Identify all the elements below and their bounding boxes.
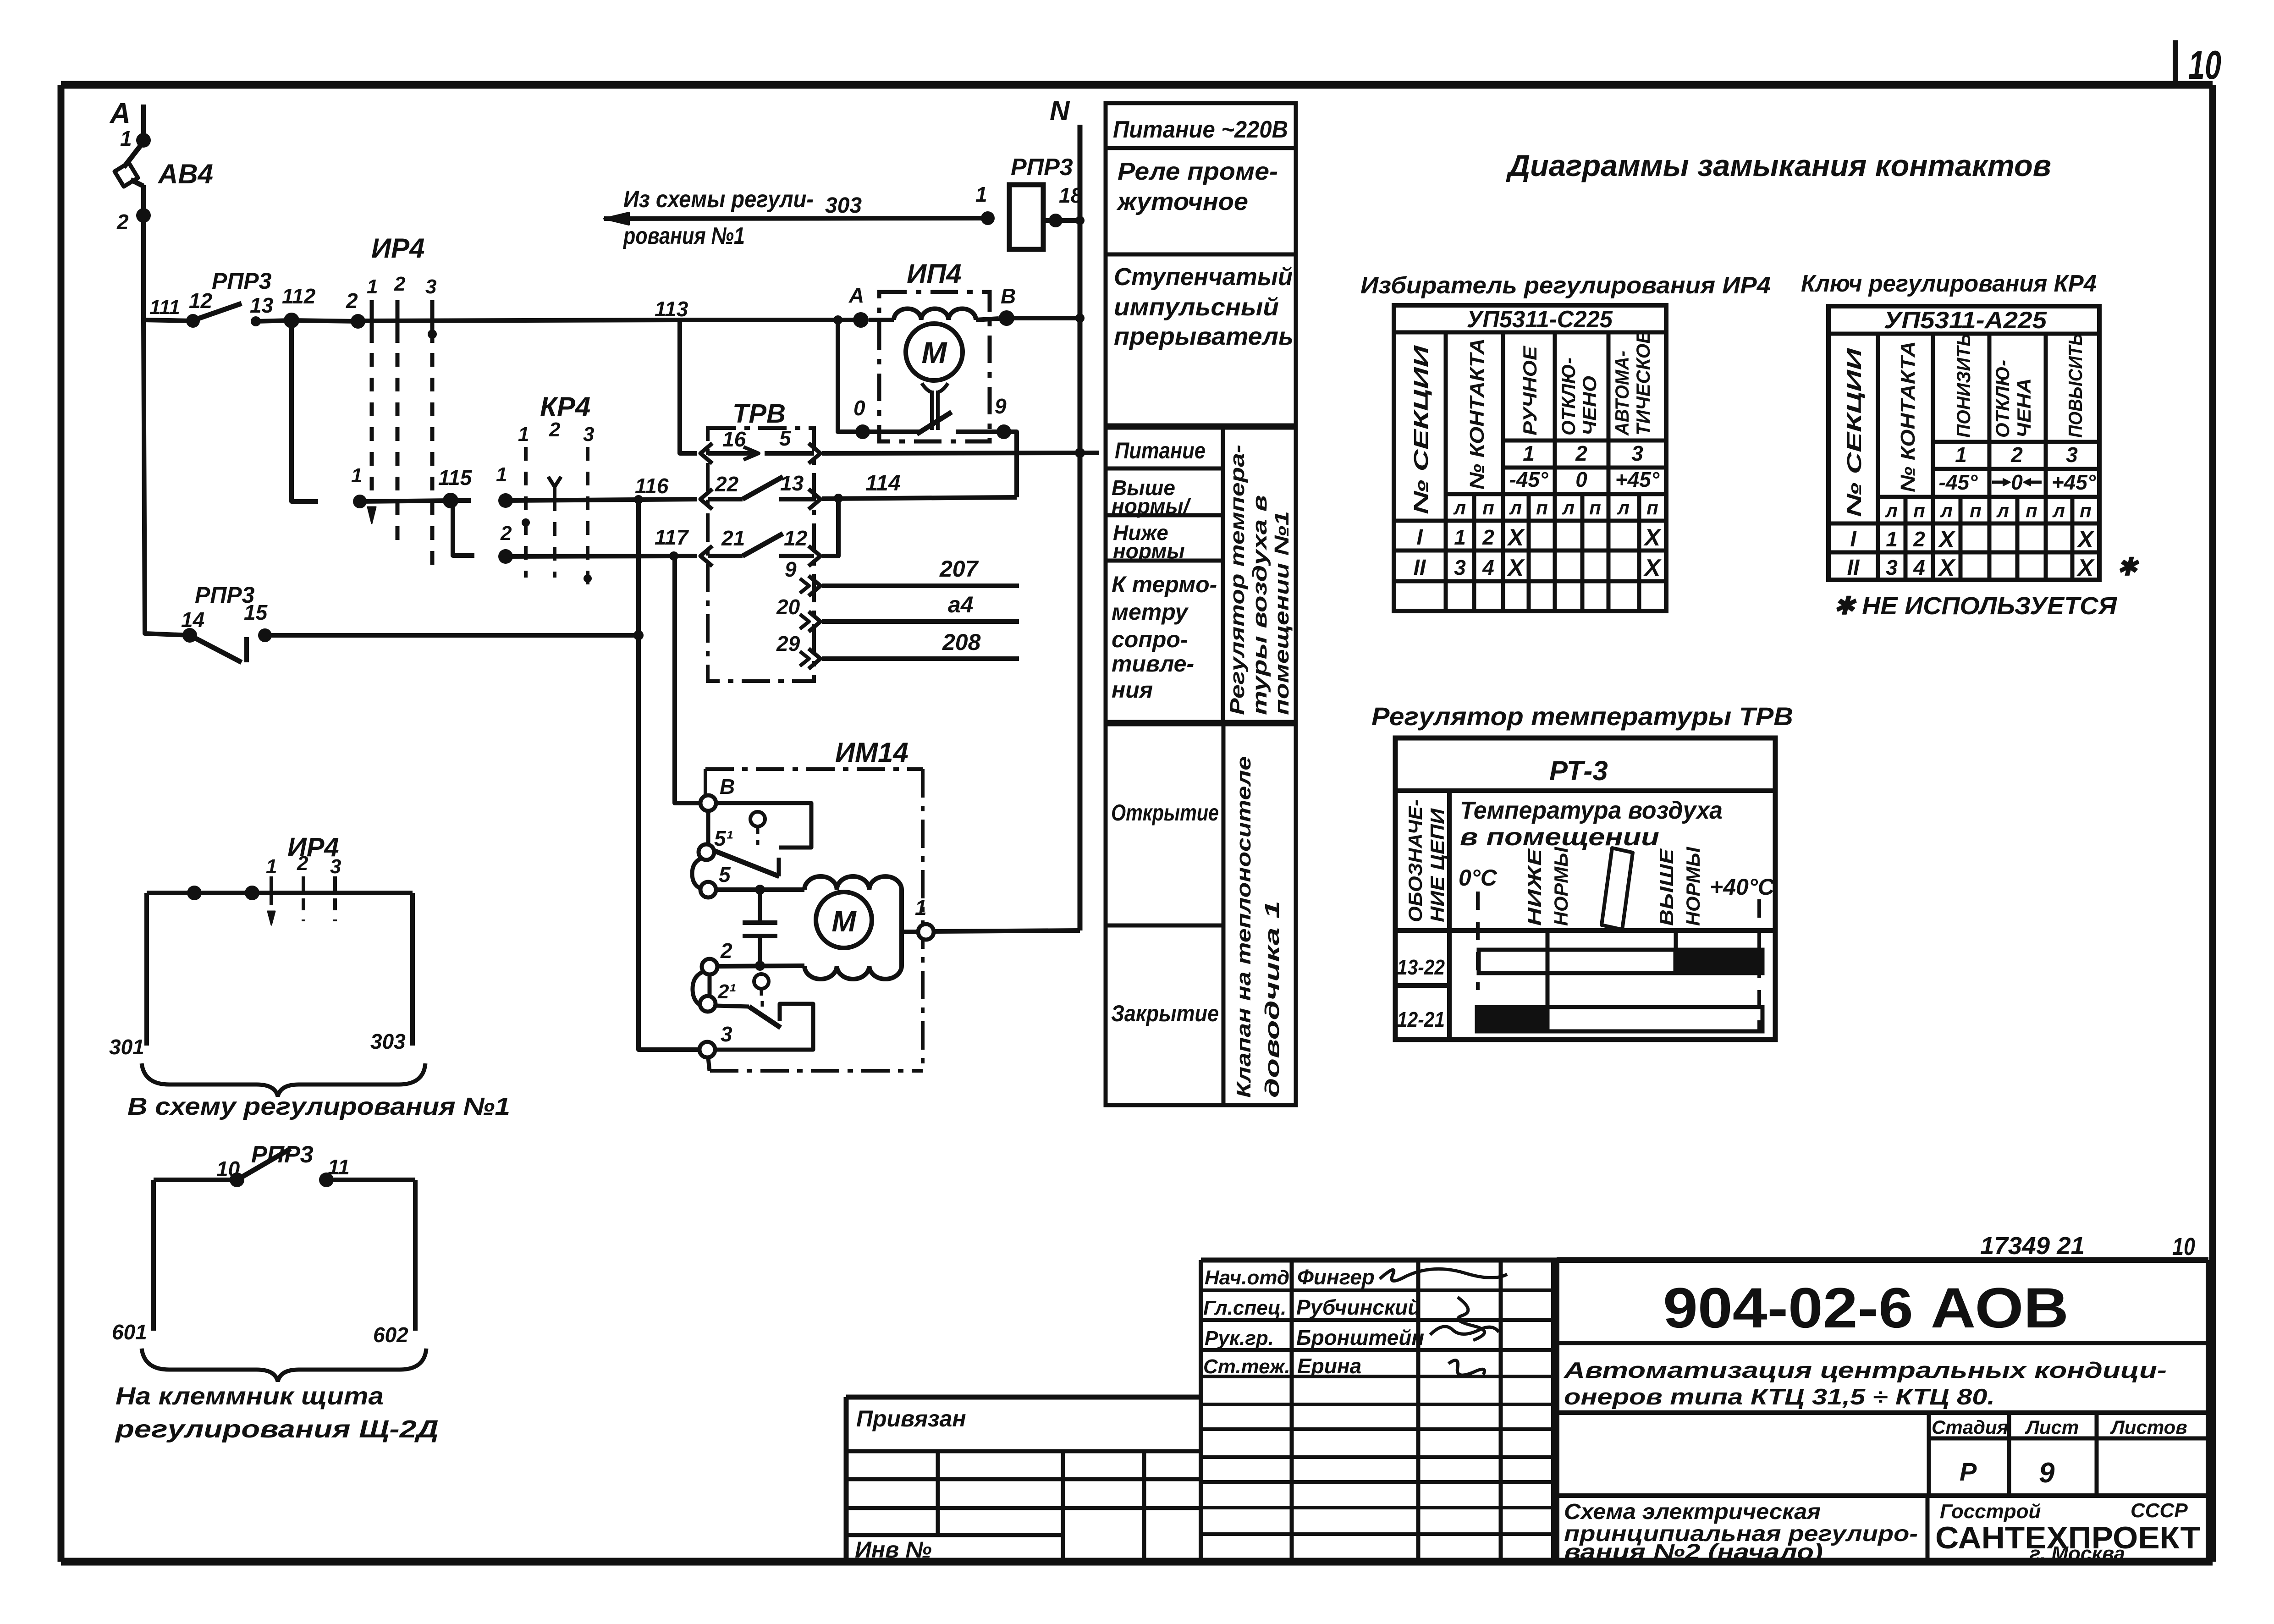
sub-circuit RPR3 10-11 (251, 1141, 314, 1168)
IM14 node 1 (915, 896, 934, 940)
subtitle Klyuch KR4 (1801, 270, 2097, 297)
actuator IM14 label (835, 737, 908, 768)
svg-text:НОРМЫ: НОРМЫ (1550, 847, 1572, 926)
wire 301 drop (109, 893, 147, 1059)
svg-text:12-21: 12-21 (1397, 1007, 1445, 1031)
svg-text:9: 9 (995, 394, 1007, 418)
RPR3 10-11 contact (154, 1149, 415, 1187)
svg-text:нормы: нормы (1113, 539, 1185, 563)
scale line nizhe (1546, 929, 1550, 1031)
svg-text:Х: Х (1507, 555, 1525, 581)
IM14 node B (700, 775, 735, 811)
wire 2 to motor (718, 961, 804, 971)
node B of IP4 (999, 284, 1016, 326)
svg-text:5: 5 (719, 863, 731, 886)
svg-text:303: 303 (370, 1029, 406, 1053)
title Regulyator temperatury TRV (1371, 702, 1793, 731)
svg-text:113: 113 (655, 297, 688, 321)
KR4 rotated header Ponizit (1953, 333, 1974, 438)
KR4 column labels (518, 418, 594, 446)
svg-text:10: 10 (2188, 42, 2221, 88)
svg-text:904-02-6 АОВ: 904-02-6 АОВ (1663, 1277, 2069, 1340)
wire 303 drop (370, 893, 413, 1053)
svg-text:сопро-: сопро- (1112, 627, 1188, 652)
actuator IM14 box (705, 769, 923, 1071)
label Privyazan (856, 1406, 966, 1431)
label Nizhe normy (1113, 521, 1185, 563)
svg-text:Ключ регулирования КР4: Ключ регулирования КР4 (1801, 270, 2097, 297)
setpoint parallelogram (1602, 848, 1633, 930)
node 18 of RPR3 coil (1049, 183, 1083, 227)
svg-text:18: 18 (1059, 183, 1083, 207)
svg-text:рования №1: рования №1 (622, 223, 745, 249)
svg-text:Питание: Питание (1115, 438, 1206, 463)
motor M of IP4 (906, 324, 963, 380)
svg-text:Фингер: Фингер (1297, 1265, 1375, 1289)
svg-text:п: п (1913, 500, 1925, 521)
KR4 positions row (1955, 443, 2078, 467)
rotated Nizhe normy (1524, 847, 1572, 926)
wire 5 to N line (822, 448, 1099, 458)
svg-text:1: 1 (120, 127, 132, 150)
svg-text:НИЕ ЦЕПИ: НИЕ ЦЕПИ (1426, 808, 1448, 922)
wire 5 to motor (716, 885, 804, 895)
svg-text:Схема электрическая: Схема электрическая (1564, 1500, 1821, 1524)
svg-text:РПР3: РПР3 (212, 268, 272, 294)
title block privyazan box (846, 1397, 1201, 1562)
KR4 row I (1850, 526, 2095, 553)
node A of IP4 (848, 283, 869, 328)
svg-text:ИМ14: ИМ14 (835, 737, 908, 768)
svg-text:Температура воздуха: Температура воздуха (1460, 797, 1723, 824)
title block main box (1557, 1260, 2208, 1562)
svg-text:СССР: СССР (2131, 1499, 2188, 1522)
svg-text:+45°: +45° (2052, 470, 2096, 494)
svg-text:1: 1 (1454, 525, 1466, 549)
KR4 rotated header N kontakta (1897, 341, 1919, 492)
rotated label Oboznachenie tsepi (1404, 799, 1448, 922)
KR4 angles row (1939, 470, 2096, 494)
svg-text:М: М (831, 905, 857, 938)
svg-text:№ КОНТАКТА: № КОНТАКТА (1897, 341, 1919, 492)
interrupter IP4 label (907, 259, 962, 289)
svg-text:РПР3: РПР3 (1011, 154, 1073, 181)
RT-3 table grid (1395, 738, 1775, 1040)
KR4 l/p row (1885, 500, 2092, 521)
svg-text:1: 1 (367, 275, 378, 298)
label Vyshe normy (1112, 476, 1191, 518)
junction 0-loop on bus (833, 315, 842, 325)
svg-text:М: М (922, 336, 948, 369)
svg-text:Ст.теж.: Ст.теж. (1203, 1355, 1290, 1378)
svg-text:5: 5 (779, 426, 792, 450)
node 113 junction (655, 297, 688, 321)
svg-text:16: 16 (722, 427, 746, 451)
svg-text:Автоматизация центральных ко: Автоматизация центральных кондици- (1564, 1358, 2167, 1383)
TRV contact 21-12 (700, 526, 820, 566)
TRV contact 16-5 (700, 426, 820, 463)
wire 2 to 2-1 (708, 975, 712, 996)
svg-text:Лист: Лист (2025, 1416, 2079, 1438)
svg-text:1: 1 (1886, 527, 1898, 551)
svg-text:УП5311-А225: УП5311-А225 (1884, 307, 2047, 334)
svg-text:импульсный: импульсный (1114, 293, 1279, 321)
svg-text:4: 4 (1482, 556, 1494, 579)
N line (1078, 125, 1083, 930)
svg-text:п: п (1482, 497, 1494, 518)
wire AB4 to node 2 (141, 185, 146, 215)
IM14 upper limit switch (714, 803, 811, 876)
riser 116 down (636, 500, 641, 635)
selector IR4 contact node 2 (346, 289, 365, 329)
scale +40 C (1710, 874, 1775, 900)
svg-text:п: п (2080, 500, 2092, 521)
svg-text:Гл.спец.: Гл.спец. (1203, 1297, 1286, 1319)
bar 12-21 (1477, 1007, 1762, 1031)
KR4 asterisk (2117, 553, 2140, 581)
brace to scheme 1 (142, 1063, 425, 1096)
org Gosstroy SSSR (1940, 1499, 2188, 1523)
wire 18 to N (1043, 216, 1085, 225)
riser 116 to IM14 node 3 (639, 635, 699, 1050)
svg-text:Открытие: Открытие (1111, 800, 1219, 826)
IR4 table header UP5311-C225 (1467, 306, 1613, 333)
relay coil RPR3 (1009, 154, 1073, 249)
stamp number 17349 21 (1980, 1232, 2085, 1260)
KR4 column 1 (522, 447, 530, 578)
svg-text:1: 1 (975, 182, 987, 206)
svg-text:I: I (1850, 527, 1857, 551)
svg-text:ПОНИЗИТЬ: ПОНИЗИТЬ (1953, 333, 1974, 438)
svg-text:Р: Р (1960, 1457, 1977, 1486)
svg-text:К термо-: К термо- (1112, 572, 1217, 597)
note ne ispolzuetsya (1834, 592, 2118, 620)
value 9 (2039, 1457, 2055, 1489)
signatures squiggles (1380, 1269, 1507, 1375)
scale line vyshe (1674, 929, 1678, 950)
KR4 column 2 (553, 497, 556, 578)
KR4 node 2 (498, 522, 513, 564)
rotated label Klapan na teplonositele (1233, 756, 1283, 1098)
wire bus 111 to 12 (143, 320, 193, 321)
svg-text:Х: Х (2076, 555, 2095, 581)
label Stadiya (1932, 1416, 2008, 1438)
svg-text:НИЖЕ: НИЖЕ (1524, 848, 1545, 926)
svg-text:п: п (2026, 500, 2037, 521)
svg-text:п: п (1536, 497, 1548, 518)
svg-text:Регулятор темпера-: Регулятор темпера- (1226, 445, 1249, 715)
svg-text:Х: Х (1643, 524, 1662, 551)
svg-text:В: В (1001, 284, 1016, 308)
svg-text:л: л (1940, 500, 1953, 521)
KR4 rotated header Povysit (2065, 333, 2086, 438)
svg-text:л: л (1617, 497, 1630, 518)
wire 15 to riser 116 (265, 630, 644, 640)
svg-text:НОРМЫ: НОРМЫ (1682, 847, 1704, 926)
IR4 row II (1414, 555, 1662, 581)
IM14 node 2 (702, 939, 732, 974)
svg-text:10: 10 (2172, 1233, 2195, 1261)
wire 116 to TRV 22 (639, 499, 697, 500)
svg-text:22: 22 (715, 472, 739, 496)
svg-text:111: 111 (149, 296, 180, 319)
svg-text:Х: Х (1938, 526, 1956, 553)
svg-text:л: л (1509, 497, 1522, 518)
node 2 of AB4 (116, 208, 151, 234)
svg-text:Реле проме-: Реле проме- (1118, 158, 1278, 185)
svg-text:ИП4: ИП4 (907, 259, 962, 289)
wire node B to N line (1007, 314, 1085, 323)
IR4 rotated header Avtomaticheskoe (1611, 330, 1654, 436)
bar 13-22 (1479, 950, 1762, 973)
sheet number 10 (2188, 42, 2221, 88)
svg-text:ЧЕНА: ЧЕНА (2013, 378, 2035, 438)
drawing name cell (1926, 1496, 1930, 1562)
node 112 junction (282, 284, 316, 328)
svg-text:3: 3 (1454, 556, 1466, 579)
svg-text:3: 3 (425, 275, 436, 298)
svg-text:13-22: 13-22 (1397, 955, 1445, 979)
svg-text:№ СЕКЦИИ: № СЕКЦИИ (1843, 347, 1866, 517)
breaker AB4 (115, 143, 213, 189)
IR4 second row moving contact (351, 464, 367, 508)
node A (phase) label (109, 98, 131, 129)
IM14 node 5-1 (699, 826, 733, 860)
drawing name line 2 (1564, 1522, 1918, 1546)
svg-text:На клеммник щита: На клеммник щита (116, 1382, 384, 1410)
KR4 contact table grid (1828, 306, 2099, 580)
IR4 positions row (1523, 441, 1643, 465)
label Stupenchatyi impulsnyi preryvatel (1114, 263, 1294, 350)
svg-text:№ КОНТАКТА: № КОНТАКТА (1466, 338, 1488, 490)
interrupter IP4 box (879, 292, 990, 441)
wire bus 113 to node A of IP4 (680, 318, 861, 322)
label Inv N (855, 1537, 932, 1563)
wire node 9 to line 114 (1004, 432, 1017, 497)
svg-text:онеров типа КТЦ 31,5 ÷ КТЦ: онеров типа КТЦ 31,5 ÷ КТЦ 80. (1564, 1385, 1995, 1409)
svg-text:регулирования Щ-2Д: регулирования Щ-2Д (115, 1415, 439, 1443)
svg-text:1: 1 (351, 464, 362, 487)
svg-text:Х: Х (1507, 524, 1525, 551)
caption V skhemu regulirovaniya N1 (127, 1093, 510, 1120)
svg-text:Ступенчатый: Ступенчатый (1114, 263, 1293, 291)
svg-text:КР4: КР4 (540, 391, 590, 422)
label Listov (2110, 1416, 2187, 1438)
svg-text:Бронштейн: Бронштейн (1296, 1326, 1424, 1349)
TRV pin 20 to wire a4 (776, 592, 1019, 632)
circuit row 12-21 (1397, 1007, 1445, 1031)
svg-text:Х: Х (1643, 555, 1662, 581)
svg-text:ЧЕНО: ЧЕНО (1579, 376, 1600, 435)
svg-text:I: I (1416, 525, 1423, 550)
KR4 rotated header N sekcii (1843, 347, 1866, 517)
svg-text:+45°: +45° (1615, 468, 1660, 491)
svg-text:1: 1 (266, 855, 277, 878)
svg-text:116: 116 (635, 474, 669, 498)
IM14 node 2-1 (700, 980, 736, 1012)
winding common to node 1 (902, 890, 918, 966)
title Diagrammy zamykaniya kontaktov (1506, 149, 2051, 182)
wire 114 (822, 471, 1017, 499)
N line label (1050, 95, 1070, 126)
IM14 node 3 (699, 1022, 732, 1057)
svg-text:Инв №: Инв № (855, 1537, 932, 1563)
wire 112 to IR4 (292, 320, 358, 321)
svg-text:л: л (1885, 500, 1898, 521)
svg-text:9: 9 (785, 557, 797, 581)
wire IR4 row2 to node 115 (360, 501, 451, 501)
svg-text:2: 2 (394, 273, 406, 295)
IM14 motor lower winding (804, 966, 902, 979)
org g Moskva (2030, 1542, 2125, 1565)
RT-3 header (1549, 755, 1608, 786)
project title line 1 (1564, 1358, 2167, 1383)
IR4 column 1 (368, 300, 376, 523)
IR4 row I (1416, 524, 1662, 551)
node 9 of IP4 (995, 394, 1011, 439)
svg-text:A: A (109, 98, 131, 129)
junction 116 (634, 474, 669, 504)
svg-text:РУЧНОЕ: РУЧНОЕ (1519, 345, 1541, 435)
svg-text:2¹: 2¹ (717, 980, 736, 1003)
svg-text:2: 2 (1575, 441, 1587, 465)
svg-text:В: В (720, 775, 735, 798)
svg-text:прерыватель: прерыватель (1114, 323, 1294, 350)
svg-text:Клапан на теплоносителе: Клапан на теплоносителе (1233, 756, 1255, 1098)
svg-text:3: 3 (721, 1022, 732, 1046)
svg-text:Закрытие: Закрытие (1111, 1001, 1219, 1026)
svg-text:3: 3 (1886, 556, 1898, 579)
IM14 motor upper winding (804, 876, 902, 890)
svg-text:жуточное: жуточное (1116, 188, 1248, 215)
svg-text:0°С: 0°С (1459, 865, 1498, 891)
IM14 lower limit switch (716, 974, 813, 1050)
svg-text:2: 2 (1913, 527, 1925, 551)
caption Na klemmnik shchita (116, 1382, 384, 1410)
wire 112 drop to row 115 (292, 320, 318, 501)
signature row ruk gr (1205, 1326, 1424, 1349)
net table: regulator box (1106, 428, 1296, 722)
svg-text:нормы/: нормы/ (1112, 494, 1191, 518)
svg-text:29: 29 (776, 632, 800, 655)
sub-circuit IR4 to scheme 1 (287, 832, 339, 862)
svg-text:Госстрой: Госстрой (1940, 1500, 2041, 1523)
svg-text:Стадия: Стадия (1932, 1416, 2008, 1438)
signature row gl spets (1203, 1295, 1421, 1319)
wire KR4-1 to junction 116 (506, 500, 639, 501)
brace to terminal board (142, 1349, 426, 1382)
svg-text:Х: Х (2076, 526, 2095, 553)
svg-text:ТРВ: ТРВ (732, 399, 786, 429)
project title line 2 (1564, 1385, 1995, 1409)
title block signature grid (1201, 1260, 1557, 1562)
wire 602 drop (373, 1180, 415, 1347)
KR4 Y contact symbol (548, 477, 561, 497)
svg-text:л: л (2052, 500, 2065, 521)
svg-text:л: л (1562, 497, 1575, 518)
svg-text:14: 14 (181, 608, 204, 632)
svg-text:2: 2 (116, 210, 129, 234)
IR4 l/p row (1453, 497, 1658, 518)
stadiya list listov grid (1929, 1413, 2208, 1496)
node 1 of AB4 (120, 127, 151, 150)
IR4 rotated header N sekcii (1410, 345, 1432, 514)
KR4 table header UP5311-A225 (1884, 307, 2047, 334)
sheet number tick (2173, 40, 2178, 85)
wire phase A drop (141, 105, 146, 140)
TRV contact 22-13 (700, 471, 820, 509)
svg-text:ВЫШЕ: ВЫШЕ (1656, 848, 1677, 926)
svg-text:3: 3 (1631, 441, 1643, 465)
rotated Vyshe normy (1656, 847, 1704, 926)
IR4 sub columns (268, 876, 335, 925)
svg-text:Нач.отд.: Нач.отд. (1205, 1266, 1295, 1289)
label Temperatura vozdukha v pomeshchenii (1460, 797, 1723, 851)
svg-text:303: 303 (825, 193, 862, 218)
svg-text:✱: ✱ (2117, 553, 2140, 581)
drop from 115 to row 117 (453, 501, 474, 556)
svg-text:Х: Х (1938, 555, 1956, 581)
label Pitanie (1115, 438, 1206, 463)
svg-text:II: II (1847, 556, 1860, 580)
net table: valve box (1106, 724, 1296, 1105)
drawing name line 3 (1564, 1540, 1823, 1564)
svg-text:117: 117 (655, 525, 689, 549)
caption regulirovaniya Shch-2D (115, 1415, 439, 1443)
wire left branch down to contact 14 (143, 319, 190, 635)
IR4 column 3 (428, 300, 437, 566)
subtitle Izbiratel IR4 (1360, 272, 1771, 299)
svg-text:ния: ния (1112, 677, 1153, 703)
svg-text:115: 115 (438, 466, 473, 490)
svg-text:л: л (1453, 497, 1466, 518)
IM14 motor M (816, 892, 872, 948)
svg-text:л: л (1996, 500, 2009, 521)
svg-text:Избиратель регулирования ИР4: Избиратель регулирования ИР4 (1360, 272, 1771, 299)
svg-text:Регулятор температуры ТРВ: Регулятор температуры ТРВ (1371, 702, 1793, 731)
IR4 rotated header Ruchnoe (1519, 345, 1541, 435)
stamp sheet 10 (2172, 1233, 2195, 1261)
wire node1 to N (934, 930, 1080, 931)
wire 117 to TRV 21 (674, 554, 697, 558)
relay contact RPR3 14-15 (181, 582, 272, 662)
rotated label Regulyator temperatury vozdukha (1226, 445, 1293, 715)
svg-text:208: 208 (942, 629, 981, 655)
svg-text:+40°С: +40°С (1710, 874, 1775, 900)
IR4 angles row (1509, 468, 1660, 491)
svg-text:В схему регулирования №1: В схему регулирования №1 (127, 1093, 510, 1120)
wire KR4-2 to junction 117 (506, 556, 674, 556)
svg-text:12: 12 (189, 289, 213, 313)
svg-text:2: 2 (346, 289, 358, 313)
circuit row 13-22 (1397, 955, 1445, 979)
svg-text:доводчика 1: доводчика 1 (1261, 901, 1283, 1098)
IR4 contact table grid (1394, 305, 1666, 611)
wire 0-loop (838, 320, 863, 432)
KR4 rotated header Otklyuchena (1992, 360, 2035, 438)
wire bus IR4 to node 113 (358, 320, 680, 321)
KR4 node 1 (496, 463, 513, 508)
svg-text:601: 601 (112, 1320, 147, 1344)
KR4 column 3 (584, 447, 592, 589)
label Pitanie 220V (1113, 116, 1288, 143)
svg-text:Из схемы регули-: Из схемы регули- (623, 186, 814, 213)
IR4 rotated header Otklyucheno (1558, 358, 1600, 435)
scale 0 C (1459, 865, 1498, 891)
IM14 node 5 (700, 863, 731, 897)
svg-text:12: 12 (784, 526, 808, 550)
label Otkrytie (1111, 800, 1219, 826)
